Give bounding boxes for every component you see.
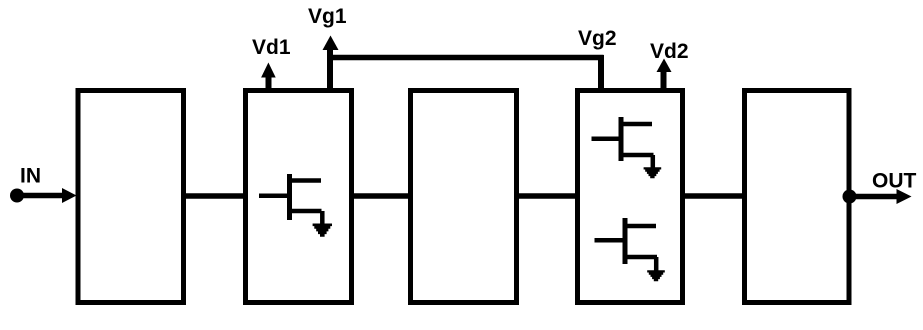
node OUT dot bbox=[843, 190, 857, 204]
wire block4-block5 bbox=[682, 193, 745, 199]
transistor Q2 gate bar bbox=[619, 117, 624, 161]
Vg1 arrowhead bbox=[323, 36, 339, 51]
svg-text:Vg1: Vg1 bbox=[308, 5, 347, 28]
wire block2-block3 bbox=[351, 193, 411, 199]
transistor Q1 gate bar bbox=[287, 174, 292, 220]
transistor Q2 gate lead bbox=[592, 136, 622, 141]
svg-text:Vd1: Vd1 bbox=[252, 36, 291, 59]
transistor Q2 drain lead bbox=[621, 122, 652, 127]
wire Vg1 to block4 top (horizontal) bbox=[328, 55, 604, 61]
ground of Q2 bbox=[644, 167, 662, 178]
transistor Q2 source stub bbox=[651, 155, 656, 168]
block 2 bbox=[246, 91, 352, 303]
wire OUT arrow shaft bbox=[850, 194, 899, 200]
svg-text:OUT: OUT bbox=[872, 170, 917, 193]
wire block1-block2 bbox=[183, 193, 246, 199]
transistor Q1 gate lead bbox=[259, 193, 290, 198]
transistor Q3 source stub bbox=[654, 257, 659, 271]
block 3 bbox=[411, 91, 517, 303]
transistor Q1 source stub bbox=[320, 211, 325, 224]
block 5 bbox=[745, 91, 850, 303]
transistor Q3 gate bar bbox=[623, 218, 628, 264]
block 1 bbox=[78, 91, 184, 303]
wire block3-block4 bbox=[516, 193, 578, 199]
block 4 bbox=[578, 91, 683, 303]
transistor Q3 drain lead bbox=[625, 224, 656, 229]
Vd2 arrowhead bbox=[657, 59, 672, 73]
transistor Q3 source lead bbox=[625, 255, 657, 260]
transistor Q3 gate lead bbox=[595, 238, 626, 243]
Vd2 supply arrow shaft bbox=[661, 71, 667, 90]
transistor Q1 source lead bbox=[290, 209, 322, 214]
svg-text:IN: IN bbox=[20, 165, 41, 188]
node IN dot bbox=[10, 189, 24, 203]
Vd1 supply arrow shaft bbox=[266, 76, 272, 90]
wire Vg1 to block4 top (vertical drop) bbox=[598, 55, 604, 90]
svg-text:Vd2: Vd2 bbox=[650, 40, 689, 63]
ground of Q3 bbox=[647, 270, 665, 281]
wire IN arrow shaft bbox=[17, 193, 63, 199]
transistor Q2 source lead bbox=[621, 153, 654, 158]
transistor Q1 drain lead bbox=[290, 178, 322, 183]
OUT arrowhead bbox=[897, 189, 912, 204]
IN arrowhead bbox=[62, 188, 77, 203]
svg-text:Vg2: Vg2 bbox=[578, 27, 617, 50]
ground of Q1 bbox=[313, 224, 332, 237]
Vd1 arrowhead bbox=[261, 63, 276, 78]
Vg1 supply arrow shaft bbox=[327, 49, 333, 90]
